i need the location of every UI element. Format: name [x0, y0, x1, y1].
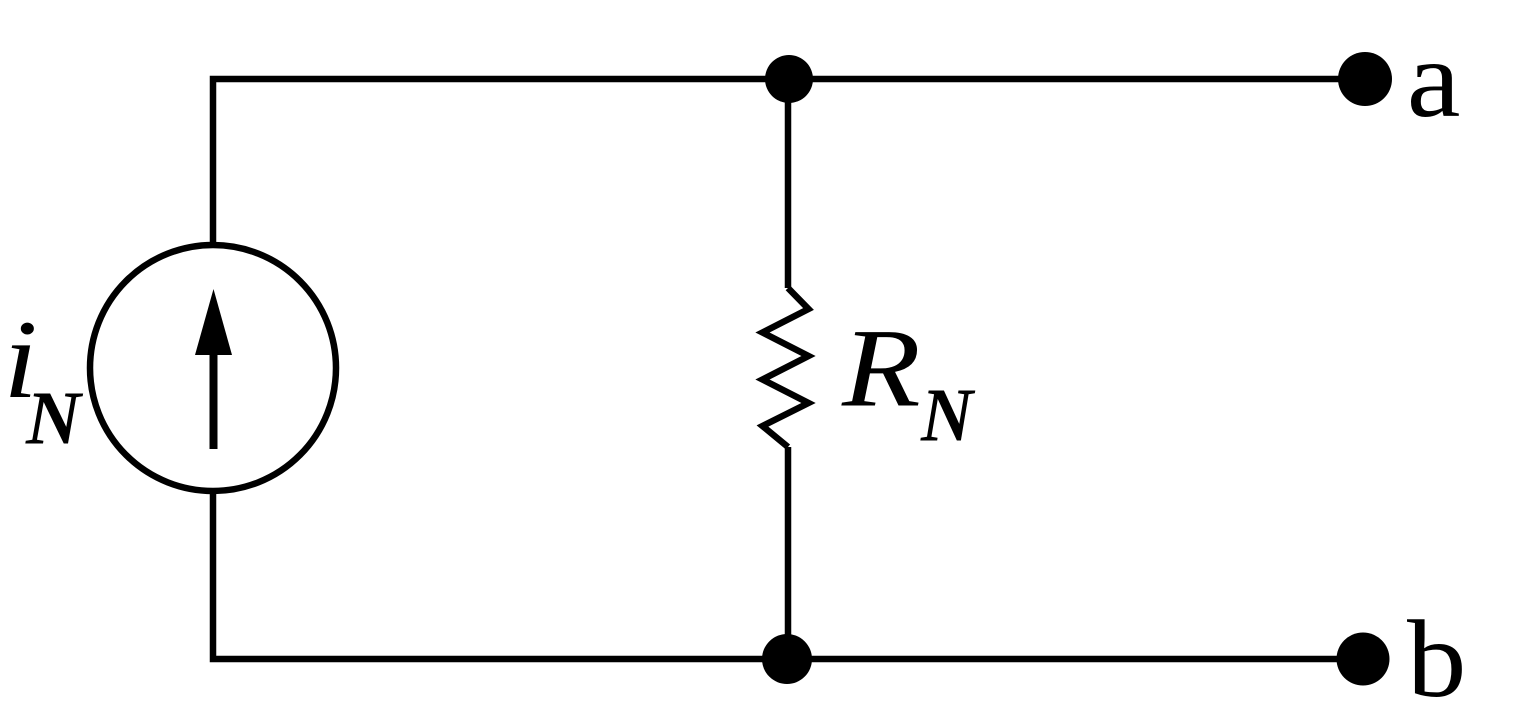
svg-text:N: N — [25, 377, 84, 461]
current source arrow head — [195, 289, 232, 355]
svg-text:R: R — [841, 306, 921, 430]
svg-text:b: b — [1407, 598, 1466, 720]
node junction dot bottom (rail to resistor) — [762, 634, 812, 684]
svg-text:N: N — [920, 374, 976, 458]
wire: bottom rail from bottom-left corner to terminal b — [213, 493, 1363, 659]
terminal a dot — [1338, 52, 1392, 106]
svg-text:a: a — [1407, 19, 1461, 141]
wire: top rail from top-left corner to terminal a — [213, 79, 1365, 243]
node junction dot top (rail to resistor) — [765, 55, 813, 103]
current source arrow shaft — [210, 352, 218, 449]
wire: middle branch lower segment — [785, 447, 792, 659]
current source iN circle — [90, 245, 336, 491]
terminal b dot — [1337, 633, 1390, 686]
wire: middle branch upper segment — [785, 79, 792, 288]
resistor RN zigzag body — [763, 288, 809, 447]
